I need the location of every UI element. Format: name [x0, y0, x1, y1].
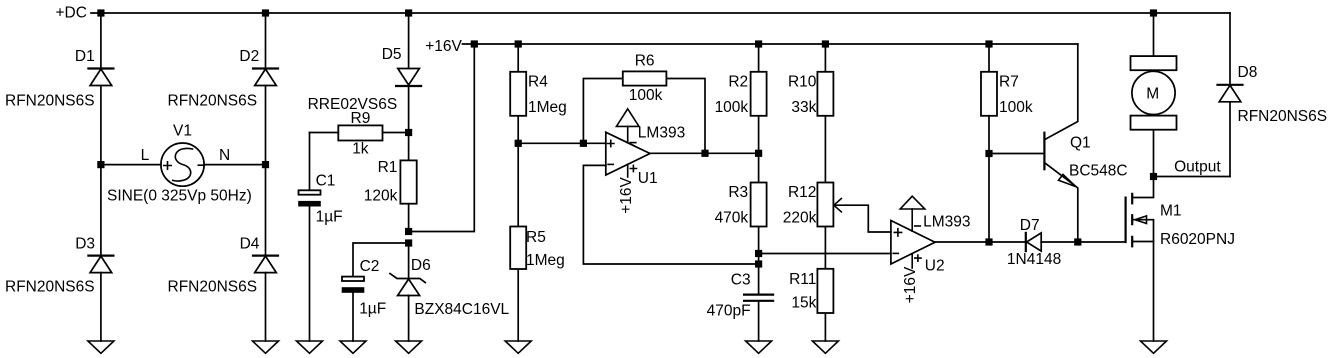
junction V1 N: [262, 161, 269, 168]
svg-text:R11: R11: [789, 271, 816, 288]
svg-text:C2: C2: [360, 258, 380, 275]
svg-text:R4: R4: [528, 74, 548, 91]
wire R9 left: [310, 132, 339, 134]
junction U1 out/R2/R3: [755, 150, 762, 157]
junction +16V/R4: [515, 40, 522, 47]
svg-text:BZX84C16VL: BZX84C16VL: [414, 301, 509, 318]
potentiometer R12: [817, 183, 841, 227]
wire Q1 base: [989, 153, 1044, 155]
wire R4 column: [517, 44, 519, 143]
junction R9/D5/R1: [405, 129, 412, 136]
wire D7 row: [989, 241, 1126, 243]
junction +DC/D1: [97, 9, 104, 16]
wire R10 column: [824, 44, 826, 341]
junction R7/U2 out/D7: [985, 238, 992, 245]
svg-text:BC548C: BC548C: [1069, 163, 1128, 180]
wire R6 right leg: [666, 79, 705, 154]
junction +DC/D5: [405, 9, 412, 16]
junction R6 left leg: [580, 140, 587, 147]
svg-text:+16V: +16V: [618, 177, 635, 214]
junction R7/Q1 base: [985, 150, 992, 157]
diode D8: [1218, 85, 1243, 102]
svg-text:1µF: 1µF: [316, 208, 343, 225]
wire D8 branch down right side: [1229, 13, 1231, 177]
resistor R7: [981, 72, 997, 116]
wire D2/D4 column: [265, 13, 267, 341]
svg-text:1N4148: 1N4148: [1007, 251, 1061, 268]
svg-text:R2: R2: [728, 74, 748, 91]
wire U1 output row: [650, 152, 759, 154]
ground D6: [396, 341, 422, 353]
svg-text:RFN20NS6S: RFN20NS6S: [1238, 108, 1328, 125]
transistor Q1: [1044, 44, 1077, 242]
junction R4/R5 noninverting: [515, 140, 522, 147]
wire +DC rail: [91, 12, 1230, 14]
svg-text:1Meg: 1Meg: [526, 252, 565, 269]
svg-text:C1: C1: [316, 173, 336, 190]
diode D5: [396, 69, 421, 87]
svg-text:470pF: 470pF: [707, 302, 751, 319]
motor load (on M1 drain): [1131, 13, 1177, 177]
junction +16V/R7: [985, 40, 992, 47]
voltage source V1: [161, 143, 204, 186]
svg-text:R6020PNJ: R6020PNJ: [1160, 231, 1235, 248]
svg-text:15k: 15k: [791, 295, 816, 312]
svg-text:D4: D4: [240, 235, 260, 252]
svg-text:D5: D5: [382, 46, 402, 63]
wire D5/R1/D6 column: [408, 13, 410, 341]
svg-text:RFN20NS6S: RFN20NS6S: [5, 279, 95, 296]
junction R6 right leg: [701, 150, 708, 157]
svg-text:+DC: +DC: [56, 5, 87, 22]
junction D7/Q1 emitter: [1074, 238, 1081, 245]
resistor R4: [510, 72, 526, 116]
resistor R11: [817, 269, 833, 313]
svg-text:C3: C3: [731, 272, 751, 289]
junction R1 bottom: [405, 228, 412, 235]
op-amp U1: [606, 109, 650, 177]
svg-text:1k: 1k: [352, 140, 369, 157]
svg-text:33k: 33k: [791, 99, 816, 116]
svg-text:LM393: LM393: [923, 214, 970, 231]
svg-text:1µF: 1µF: [359, 300, 386, 317]
capacitor C2: [342, 277, 365, 293]
wire V1 left: [101, 164, 161, 166]
resistor R5: [510, 227, 526, 270]
diode D3: [88, 256, 113, 273]
svg-text:R9: R9: [351, 110, 371, 127]
svg-text:RFN20NS6S: RFN20NS6S: [5, 92, 95, 109]
svg-text:D3: D3: [75, 235, 95, 252]
wire Output horizontal: [1154, 176, 1231, 178]
wire R7 column: [988, 44, 990, 242]
junction +DC/D2: [262, 9, 269, 16]
svg-text:1Meg: 1Meg: [528, 99, 567, 116]
svg-text:R10: R10: [788, 74, 817, 91]
svg-text:R5: R5: [526, 229, 546, 246]
svg-text:SINE(0 325Vp 50Hz): SINE(0 325Vp 50Hz): [107, 187, 252, 204]
resistor R6: [623, 71, 667, 85]
svg-text:100k: 100k: [715, 99, 749, 116]
wire U2 inverting row: [759, 253, 891, 255]
svg-text:100k: 100k: [629, 87, 663, 104]
svg-text:RFN20NS6S: RFN20NS6S: [168, 279, 258, 296]
junction R3 bottom: [755, 250, 762, 257]
ground R11: [812, 341, 838, 353]
svg-text:470k: 470k: [715, 210, 749, 227]
svg-text:100k: 100k: [999, 99, 1033, 116]
wire R2/R3 column: [758, 44, 760, 264]
svg-text:D6: D6: [411, 257, 431, 274]
zener diode D6: [390, 274, 425, 296]
resistor R9: [338, 125, 382, 140]
svg-text:R12: R12: [788, 184, 816, 201]
junction +16V flag: [471, 40, 478, 47]
resistor R10: [817, 72, 833, 116]
resistor R3: [751, 183, 767, 227]
svg-text:N: N: [219, 147, 230, 164]
svg-text:R1: R1: [378, 159, 398, 176]
wire noninverting row U1: [518, 142, 606, 144]
junction +16V/R2: [755, 40, 762, 47]
wire U2 output: [935, 241, 989, 243]
capacitor C1: [298, 133, 321, 342]
ground M1 source: [1141, 341, 1167, 353]
wire R12 wiper to U2: [834, 205, 891, 232]
ground R5: [505, 341, 531, 353]
wire U1 inverting feedback: [583, 165, 758, 264]
wire R1 bottom to +16V rail: [409, 44, 475, 232]
svg-text:120k: 120k: [364, 188, 398, 205]
svg-text:M1: M1: [1160, 203, 1182, 220]
svg-text:R3: R3: [728, 184, 748, 201]
op-amp U2: [891, 196, 935, 268]
wire D1/D3 column: [100, 13, 102, 341]
wire R6 left leg: [583, 79, 622, 144]
svg-text:+16V: +16V: [425, 38, 462, 55]
resistor R2: [751, 72, 767, 116]
capacitor C3: [744, 264, 773, 341]
svg-text:D2: D2: [239, 48, 259, 65]
junction +DC/motor: [1150, 9, 1157, 16]
diode D2: [253, 69, 278, 86]
svg-text:M: M: [1146, 86, 1159, 103]
svg-text:Output: Output: [1174, 159, 1221, 176]
ground C1: [297, 341, 323, 353]
MOSFET M1: [1126, 177, 1154, 342]
svg-text:+16V: +16V: [902, 266, 919, 303]
wire +16V rail: [463, 43, 1078, 45]
svg-text:Q1: Q1: [1070, 134, 1091, 151]
diode D7: [1026, 233, 1041, 251]
wire C2 branch: [353, 243, 409, 341]
svg-text:D8: D8: [1238, 64, 1258, 81]
svg-text:L: L: [141, 147, 150, 164]
svg-text:D1: D1: [75, 48, 95, 65]
svg-text:U2: U2: [925, 258, 945, 275]
svg-text:220k: 220k: [783, 210, 817, 227]
svg-text:RFN20NS6S: RFN20NS6S: [168, 92, 258, 109]
junction C2 branch: [405, 239, 412, 246]
junction +16V/R10: [822, 40, 829, 47]
resistor R1: [400, 160, 416, 203]
junction C3 top: [755, 260, 762, 267]
wire R5 column: [517, 143, 519, 341]
ground C3: [746, 341, 772, 353]
svg-text:LM393: LM393: [638, 125, 685, 142]
svg-text:R7: R7: [999, 74, 1019, 91]
diode D1: [88, 69, 113, 86]
junction V1 L: [97, 161, 104, 168]
ground D3 column: [88, 341, 114, 353]
ground C2: [340, 341, 366, 353]
ground D4 column: [253, 341, 279, 353]
diode D4: [253, 256, 278, 273]
wire V1 right: [204, 164, 265, 166]
svg-text:R6: R6: [635, 53, 655, 70]
wire R9 right: [383, 132, 409, 134]
junction motor/M1 drain/Output: [1150, 173, 1157, 180]
svg-text:V1: V1: [173, 122, 192, 139]
svg-text:U1: U1: [638, 170, 658, 187]
svg-text:D7: D7: [1020, 217, 1040, 234]
